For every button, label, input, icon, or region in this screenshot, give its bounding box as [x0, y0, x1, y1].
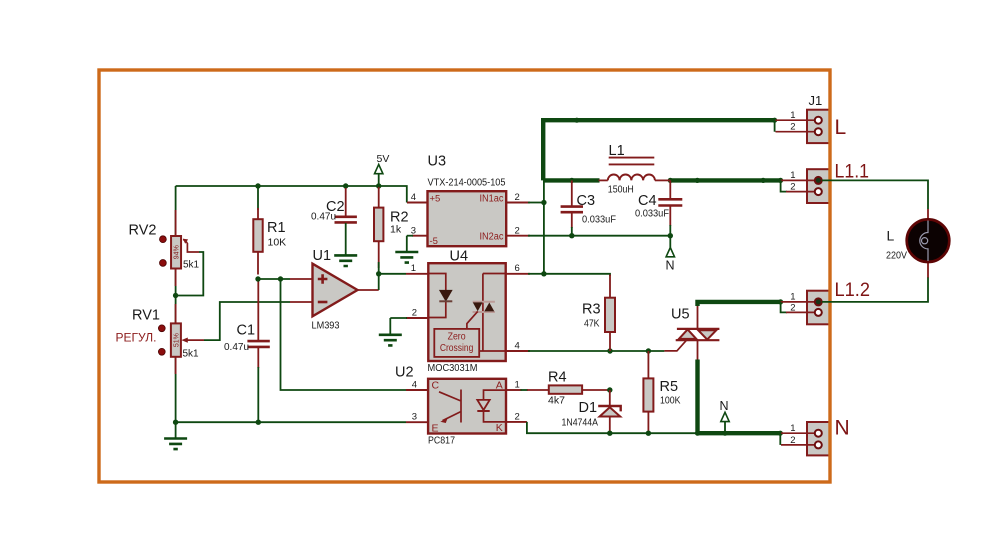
svg-text:L: L [887, 228, 895, 244]
svg-text:1k: 1k [390, 224, 402, 236]
power terminal 5V [375, 153, 390, 186]
wire RV1 wiper to U1 inverting input [204, 302, 290, 340]
svg-text:94%: 94% [173, 245, 180, 259]
pin 1 L1.1 [781, 179, 815, 181]
svg-text:LM393: LM393 [312, 320, 340, 332]
optocoupler U2 PC817 [395, 365, 506, 447]
svg-text:D1: D1 [579, 400, 598, 416]
svg-text:C3: C3 [577, 193, 596, 209]
pin 1 J1 [776, 119, 815, 121]
capacitor C1 0.47u [224, 279, 270, 422]
svg-text:R3: R3 [582, 302, 601, 318]
pin 3 U2 [406, 421, 428, 423]
svg-text:4: 4 [411, 192, 416, 203]
svg-text:U4: U4 [450, 249, 469, 265]
pin 6 U4 [506, 273, 530, 275]
wire left vertical RV column [175, 186, 177, 422]
connector N [807, 422, 830, 455]
zener diode D1 1N4744A [562, 390, 621, 433]
svg-text:U3: U3 [428, 154, 447, 170]
node top rail junctions [255, 183, 260, 188]
svg-text:C1: C1 [237, 323, 256, 339]
svg-text:R1: R1 [267, 220, 286, 236]
pin 4 U2 [406, 389, 428, 391]
svg-text:0.033uF: 0.033uF [635, 208, 669, 220]
pin 4 U4 [506, 350, 530, 352]
svg-text:-5: -5 [430, 236, 438, 247]
svg-text:C: C [432, 380, 440, 392]
pin 1 N connector [781, 432, 815, 434]
wire RV2 wiper loop [176, 252, 204, 296]
svg-text:0.47u: 0.47u [224, 341, 249, 353]
wire U1 output to node [358, 289, 379, 291]
wire U2 pin2 to N rail [527, 422, 698, 433]
svg-text:IN1ac: IN1ac [480, 194, 504, 205]
svg-text:1: 1 [411, 263, 416, 274]
potentiometer RV1 [116, 304, 205, 374]
resistor R2 1k [374, 187, 409, 274]
resistor R5 100K [643, 351, 680, 433]
wire lamp to L1.2 [822, 277, 928, 302]
svg-text:1: 1 [515, 380, 520, 391]
svg-text:R5: R5 [660, 379, 679, 395]
U4 zero crossing block [434, 329, 479, 357]
svg-text:2: 2 [515, 225, 520, 236]
connector L1.2 [807, 291, 830, 325]
wire comparator output node to U4 pin 1 [379, 273, 406, 275]
pin 2 U2 [506, 421, 527, 423]
pin 2 U4 [406, 317, 428, 319]
svg-text:L1: L1 [609, 143, 625, 159]
wire IN2ac to C4 [528, 235, 670, 237]
svg-text:MOC3031M: MOC3031M [428, 362, 478, 374]
resistor R1 10K [253, 186, 286, 275]
svg-text:N: N [835, 417, 850, 440]
pin 3 U3 [412, 235, 428, 237]
optotriac U4 MOC3031M [428, 249, 506, 375]
svg-text:4k7: 4k7 [548, 395, 565, 407]
node ground rail junctions [173, 420, 178, 425]
triac U5 [664, 305, 719, 361]
svg-text:5k1: 5k1 [183, 260, 200, 271]
lamp L 220V [886, 209, 949, 278]
wire L1.1 to lamp [822, 180, 928, 209]
power terminal N (above N rail) [720, 399, 730, 433]
svg-text:PC817: PC817 [428, 435, 455, 447]
svg-text:1: 1 [790, 292, 795, 303]
pin 2 L1.2 [781, 302, 787, 313]
power module U3 VTX-214-0005-105 [428, 154, 507, 248]
svg-text:IN2ac: IN2ac [480, 231, 504, 242]
capacitor C4 0.033uF [635, 180, 682, 235]
svg-text:K: K [496, 422, 503, 434]
svg-text:1: 1 [790, 110, 795, 121]
svg-text:Zero: Zero [448, 330, 466, 342]
svg-text:R4: R4 [548, 370, 567, 386]
node RV2/RV1 junction [173, 293, 178, 298]
svg-text:L1.2: L1.2 [835, 280, 871, 301]
svg-text:Crossing: Crossing [440, 342, 474, 354]
svg-text:3: 3 [412, 412, 417, 423]
resistor R4 4k7 [521, 370, 610, 407]
svg-text:E: E [432, 423, 439, 435]
svg-text:2: 2 [515, 192, 520, 203]
svg-text:RV2: RV2 [129, 223, 157, 239]
pin 1 U4 [406, 273, 428, 275]
power terminal N (below C4) [666, 248, 675, 273]
wire node to U2 pin4 [281, 279, 407, 390]
svg-text:2: 2 [790, 303, 795, 314]
svg-text:0.47u: 0.47u [311, 211, 336, 223]
svg-text:2: 2 [412, 307, 417, 318]
pin 2 N connector [779, 433, 781, 445]
svg-text:1: 1 [790, 170, 795, 181]
wire thick AC top rail [543, 120, 774, 180]
wire thick U5 MT1 down to N rail [695, 360, 699, 434]
capacitor C2 0.47u [311, 188, 357, 255]
wire IN1ac to AC column [528, 202, 544, 204]
U4 internal triac [467, 274, 505, 352]
svg-text:51%: 51% [173, 333, 180, 347]
svg-text:150uH: 150uH [608, 184, 634, 196]
svg-text:2: 2 [790, 182, 795, 193]
svg-text:U1: U1 [313, 248, 332, 264]
pin 4 U3 [407, 202, 428, 204]
wire bottom ground rail [176, 421, 406, 423]
ground main [175, 422, 177, 438]
wire thick L1 to connector L1.1 [670, 178, 780, 182]
wire C4 node to N terminal [669, 236, 671, 248]
ground U4 pin2 [379, 335, 402, 346]
svg-text:5k1: 5k1 [183, 349, 200, 360]
svg-text:U2: U2 [395, 365, 414, 381]
wire pin6 node to R3 top [544, 274, 610, 276]
wire U3 pin3 to ground [407, 235, 413, 237]
svg-text:220V: 220V [886, 250, 907, 262]
wire U1 non-inverting input node [258, 278, 290, 280]
U2 internal phototransistor [439, 390, 461, 424]
svg-text:+5: +5 [430, 194, 441, 205]
wire U4 pin2 to ground [390, 317, 407, 319]
svg-text:6: 6 [515, 263, 520, 274]
svg-text:U5: U5 [671, 307, 690, 323]
svg-text:5V: 5V [377, 153, 390, 165]
svg-text:1: 1 [790, 423, 795, 434]
svg-text:100K: 100K [660, 395, 681, 407]
pin 2 U3 IN2ac [506, 235, 530, 237]
pin 1 U2 [506, 389, 522, 391]
svg-text:47K: 47K [584, 318, 600, 330]
svg-text:0.033uF: 0.033uF [582, 214, 616, 226]
svg-text:2: 2 [790, 122, 795, 133]
wire 5V top rail [176, 186, 407, 203]
wire thick U5 MT2 to connector L1.2 [698, 302, 781, 306]
capacitor C3 0.033uF [561, 180, 616, 235]
pin 2 J1 [774, 120, 776, 132]
pin 1 L1.2 [781, 301, 815, 303]
svg-text:2: 2 [515, 411, 520, 422]
ground C2 [334, 255, 357, 266]
svg-text:4: 4 [412, 380, 417, 391]
potentiometer RV2 [129, 210, 200, 286]
wire AC column (IN1ac node down to pin6 node) [543, 180, 545, 273]
svg-text:10K: 10K [268, 237, 287, 249]
wire thick AC to L1 [543, 178, 599, 182]
wire thick N rail [698, 431, 781, 435]
inductor L1 150uH [599, 143, 671, 196]
node IN2ac junctions [569, 233, 574, 238]
pin 2 U3 IN1ac [506, 202, 530, 204]
svg-text:3: 3 [411, 225, 416, 236]
svg-text:1N4744A: 1N4744A [562, 418, 599, 429]
svg-text:2: 2 [790, 435, 795, 446]
connector J1 [807, 93, 830, 143]
svg-text:L: L [835, 116, 847, 139]
op-amp U1 LM393 [290, 248, 358, 332]
svg-text:VTX-214-0005-105: VTX-214-0005-105 [428, 178, 506, 189]
pin 2 L1.1 [781, 180, 787, 191]
U2 internal LED [477, 390, 505, 422]
resistor R3 47K [582, 275, 615, 352]
svg-text:N: N [666, 259, 675, 273]
connector L1.1 [807, 169, 830, 203]
svg-text:4: 4 [515, 341, 520, 352]
svg-text:РЕГУЛ.: РЕГУЛ. [116, 331, 157, 345]
U4 internal LED D [429, 274, 452, 318]
wire U4 pin4 row to gate [528, 350, 664, 352]
svg-text:L1.1: L1.1 [835, 162, 870, 183]
ground U3 pin3 [395, 252, 418, 263]
wire U4 pin6 to AC column [528, 273, 544, 275]
svg-text:J1: J1 [809, 93, 823, 108]
border frame [99, 70, 830, 482]
svg-text:N: N [720, 399, 729, 413]
svg-text:RV1: RV1 [132, 308, 160, 324]
